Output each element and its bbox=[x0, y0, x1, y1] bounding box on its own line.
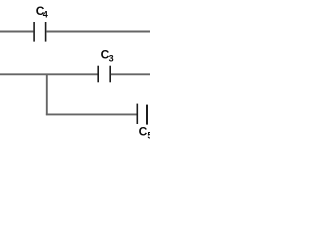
wire top-left segment bbox=[0, 31, 33, 33]
capacitor C5 right plate bbox=[146, 105, 148, 125]
svg-text:3: 3 bbox=[109, 54, 114, 64]
wire middle-left segment bbox=[0, 73, 98, 75]
capacitor C4 right plate bbox=[45, 22, 47, 42]
svg-text:C: C bbox=[139, 125, 148, 139]
capacitor C5 left plate bbox=[136, 104, 138, 124]
wire vertical branch bbox=[46, 74, 48, 115]
label C5 bbox=[139, 125, 153, 141]
svg-text:4: 4 bbox=[43, 9, 48, 19]
wire bottom segment bbox=[46, 113, 137, 115]
label C4 bbox=[36, 4, 48, 20]
label C3 bbox=[101, 48, 114, 64]
wire middle-right segment bbox=[111, 73, 150, 75]
wire top-right segment bbox=[46, 31, 150, 33]
capacitor C3 right plate bbox=[109, 66, 111, 83]
capacitor C3 left plate bbox=[97, 66, 99, 83]
capacitor C4 left plate bbox=[33, 22, 35, 42]
svg-text:5: 5 bbox=[147, 130, 150, 140]
